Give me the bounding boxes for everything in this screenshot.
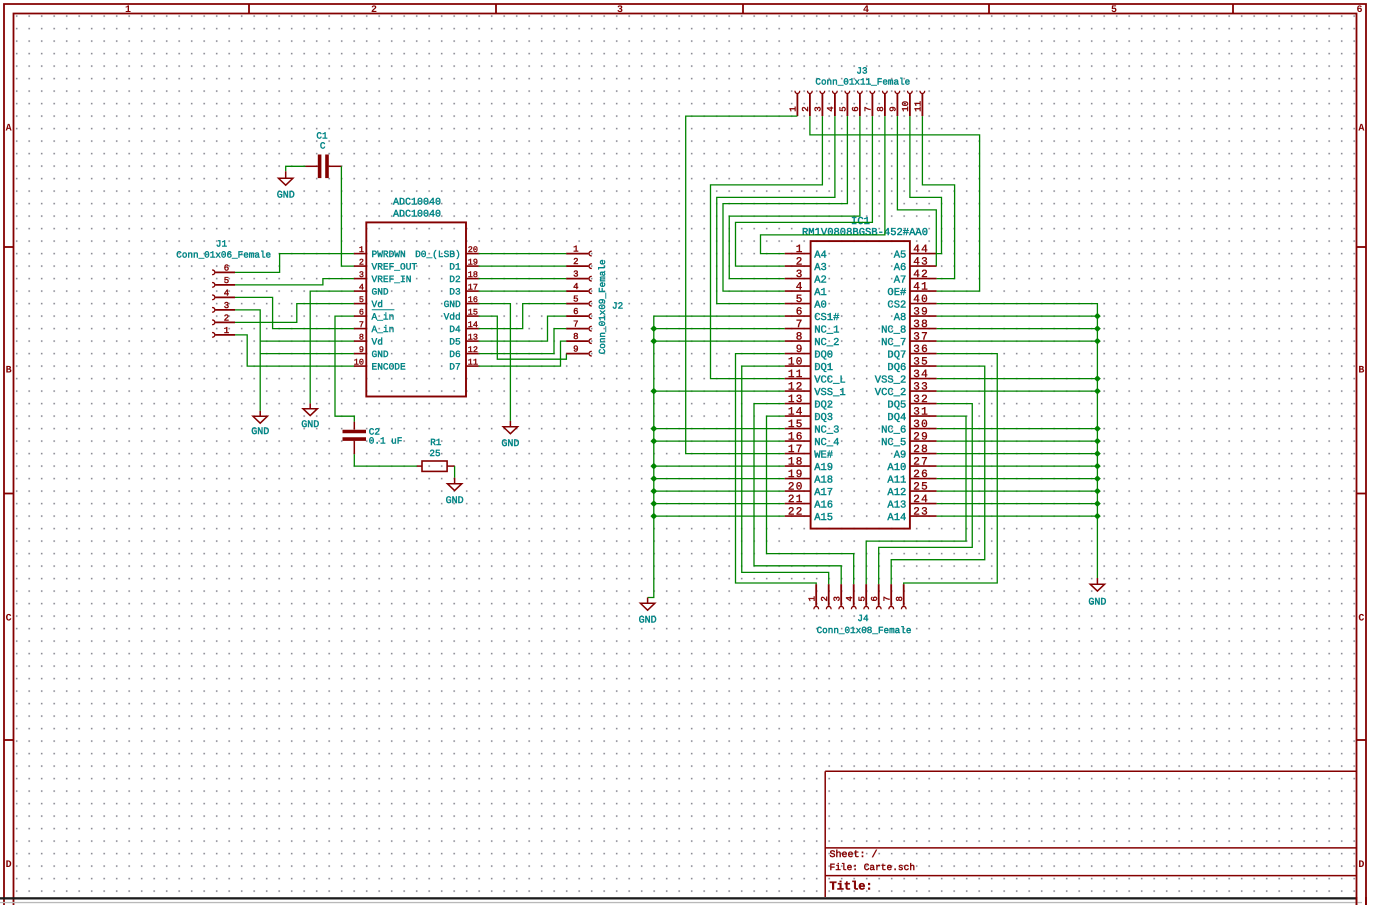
wire IC1 right row 18 to right ground bus bbox=[937, 465, 1098, 467]
wire J3 pin6 to IC1 pin3 A2 bbox=[729, 116, 860, 279]
wire ADC pin20 to J2 pin1 bbox=[479, 253, 567, 255]
IC1 pin 1 A4 bbox=[785, 244, 827, 261]
svg-text:4: 4 bbox=[863, 5, 869, 16]
svg-text:14: 14 bbox=[468, 320, 478, 330]
svg-text:7: 7 bbox=[882, 596, 892, 601]
svg-text:Vd: Vd bbox=[372, 337, 383, 348]
svg-text:15: 15 bbox=[788, 419, 804, 431]
wire IC1 right row 8 to right ground bus bbox=[937, 340, 1098, 342]
svg-text:17: 17 bbox=[468, 283, 478, 293]
svg-text:1: 1 bbox=[224, 326, 229, 336]
svg-text:6: 6 bbox=[359, 308, 364, 318]
svg-text:20: 20 bbox=[468, 245, 478, 255]
svg-text:C: C bbox=[320, 140, 326, 151]
wire IC1 pin 15 to left ground bus bbox=[654, 428, 785, 430]
ground symbol below ADC pin4 bbox=[309, 403, 311, 408]
svg-text:GND: GND bbox=[372, 349, 389, 360]
wire C2 to R1 bbox=[354, 454, 417, 466]
ADC pin 5 Vd bbox=[354, 295, 383, 310]
svg-text:18: 18 bbox=[788, 456, 804, 468]
junction on right ground bus row 20 bbox=[1094, 488, 1101, 495]
junction on right ground bus row 7 bbox=[1094, 325, 1101, 332]
svg-text:J3: J3 bbox=[856, 66, 867, 77]
svg-text:7: 7 bbox=[864, 106, 874, 111]
svg-text:DQ6: DQ6 bbox=[887, 362, 906, 374]
wire ADC pin14 to J2 pin5 bbox=[479, 304, 567, 329]
svg-text:CS1#: CS1# bbox=[814, 312, 839, 324]
svg-text:29: 29 bbox=[913, 431, 929, 443]
IC1 pin 10 DQ1 bbox=[785, 356, 833, 374]
wire ADC pin19 to J2 pin2 bbox=[479, 265, 567, 267]
svg-text:NC_7: NC_7 bbox=[881, 337, 906, 349]
junction on left ground bus row 8 bbox=[650, 338, 657, 345]
wire ADC pin4 to ground bbox=[310, 291, 354, 403]
ADC pin 19 D1 bbox=[449, 258, 478, 273]
svg-text:12: 12 bbox=[468, 345, 478, 355]
svg-text:GND: GND bbox=[251, 427, 269, 438]
svg-text:10: 10 bbox=[354, 358, 364, 368]
svg-text:A_in: A_in bbox=[372, 312, 395, 323]
ground symbol below ADC pin16 wire bbox=[509, 421, 511, 427]
svg-text:0.1 uF: 0.1 uF bbox=[369, 436, 402, 447]
wire J1 pin4 to ADC pin7 bbox=[235, 297, 354, 328]
ADC pin 7 A_in bbox=[354, 320, 394, 335]
wire IC1 pin 8 to left ground bus bbox=[654, 340, 785, 342]
svg-text:D6: D6 bbox=[449, 349, 461, 360]
wire J3 pin11 to IC1 pin42 A7 bbox=[922, 116, 954, 279]
wire IC1 right row 17 to right ground bus bbox=[937, 453, 1098, 455]
svg-text:11: 11 bbox=[788, 369, 804, 381]
junction on right ground bus row 12 bbox=[1094, 388, 1101, 395]
IC1 pin 40 CS2 bbox=[887, 294, 936, 312]
svg-text:13: 13 bbox=[468, 333, 478, 343]
junction on right ground bus row 18 bbox=[1094, 463, 1101, 470]
svg-text:39: 39 bbox=[913, 306, 929, 318]
svg-text:GND: GND bbox=[639, 616, 657, 627]
svg-text:3: 3 bbox=[359, 270, 364, 280]
svg-text:D0_(LSB): D0_(LSB) bbox=[415, 249, 461, 260]
ADC pin 10 ENCODE bbox=[354, 358, 406, 373]
svg-text:DQ1: DQ1 bbox=[814, 362, 833, 374]
svg-text:3: 3 bbox=[796, 269, 804, 281]
wire ADC pin11 to J2 pin8 bbox=[479, 341, 567, 366]
svg-text:OE#: OE# bbox=[887, 287, 906, 299]
svg-text:GND: GND bbox=[501, 439, 519, 450]
svg-text:6: 6 bbox=[1356, 5, 1362, 16]
svg-text:9: 9 bbox=[796, 344, 804, 356]
ADC pin 2 VREF_OUT bbox=[354, 258, 418, 273]
IC1 pin 39 A8 bbox=[894, 306, 937, 324]
svg-text:GND: GND bbox=[277, 190, 295, 201]
wire J3 pin2 to IC1 pin41 OE# bbox=[810, 116, 980, 291]
ADC pin 16 GND bbox=[444, 295, 479, 310]
svg-text:GND: GND bbox=[301, 420, 319, 431]
svg-text:16: 16 bbox=[468, 295, 478, 305]
svg-text:40: 40 bbox=[913, 294, 929, 306]
svg-text:ADC10040: ADC10040 bbox=[393, 198, 441, 209]
junction on left ground bus row 19 bbox=[650, 475, 657, 482]
svg-text:7: 7 bbox=[359, 320, 364, 330]
svg-text:A18: A18 bbox=[814, 474, 833, 486]
svg-text:NC_5: NC_5 bbox=[881, 437, 906, 449]
junction on left ground bus row 21 bbox=[650, 500, 657, 507]
wire IC1 right row 6 to right ground bus bbox=[937, 315, 1098, 317]
wire ADC pin1 to J1 pin6 bbox=[235, 254, 354, 273]
svg-text:3: 3 bbox=[617, 5, 623, 16]
svg-text:10: 10 bbox=[788, 356, 804, 368]
svg-text:A6: A6 bbox=[894, 262, 907, 274]
capacitor C1 bbox=[306, 155, 342, 179]
wire IC1 DQ6 to J4 pin7 bbox=[891, 366, 985, 584]
svg-text:A0: A0 bbox=[814, 299, 827, 311]
svg-text:3: 3 bbox=[573, 270, 578, 280]
ADC pin 4 GND bbox=[354, 283, 389, 298]
svg-text:1: 1 bbox=[807, 596, 817, 601]
IC1 pin 43 A6 bbox=[894, 256, 937, 274]
IC1 pin 16 NC_4 bbox=[785, 431, 840, 449]
svg-text:6: 6 bbox=[224, 263, 229, 273]
svg-text:36: 36 bbox=[913, 344, 929, 356]
wire IC1 DQ0 to J4 pin1 bbox=[736, 354, 817, 585]
wire J3 pin3 to IC1 pin11 VCC_L bbox=[711, 116, 823, 379]
svg-text:38: 38 bbox=[913, 319, 929, 331]
wire IC1 pin 16 to left ground bus bbox=[654, 440, 785, 442]
svg-text:A7: A7 bbox=[894, 274, 907, 286]
svg-text:GND: GND bbox=[372, 287, 389, 298]
wire IC1 right row 15 to right ground bus bbox=[937, 428, 1098, 430]
svg-text:C: C bbox=[1358, 614, 1364, 625]
IC1 pin 3 A2 bbox=[785, 269, 827, 287]
IC1 pin 6 CS1# bbox=[785, 306, 840, 324]
svg-text:2: 2 bbox=[801, 106, 811, 111]
svg-text:16: 16 bbox=[788, 431, 804, 443]
svg-text:VSS_2: VSS_2 bbox=[875, 374, 907, 386]
svg-text:7: 7 bbox=[796, 319, 804, 331]
IC1 pin 8 NC_2 bbox=[785, 331, 840, 349]
svg-text:5: 5 bbox=[573, 295, 578, 305]
junction on right ground bus row 11 bbox=[1094, 375, 1101, 382]
svg-text:11: 11 bbox=[914, 101, 924, 112]
svg-text:4: 4 bbox=[359, 283, 364, 293]
IC1 pin 37 NC_7 bbox=[881, 331, 937, 349]
wire ADC pin13 to J2 pin6 bbox=[479, 316, 567, 341]
svg-text:25: 25 bbox=[429, 448, 440, 459]
wire J3 pin5 to IC1 pin4 A1 bbox=[723, 116, 847, 291]
IC1 pin 26 A11 bbox=[887, 469, 936, 487]
svg-text:Conn_01x06_Female: Conn_01x06_Female bbox=[176, 250, 271, 261]
svg-text:1: 1 bbox=[573, 245, 578, 255]
connector J3 bbox=[795, 91, 925, 116]
IC1 pin 34 VSS_2 bbox=[875, 369, 937, 387]
wire IC1 pin 20 to left ground bus bbox=[654, 490, 785, 492]
wire IC1 DQ2 to J4 pin3 bbox=[754, 404, 841, 585]
svg-text:1: 1 bbox=[125, 5, 131, 16]
wire IC1 right row 12 to right ground bus bbox=[937, 390, 1098, 392]
IC1 pin 15 NC_3 bbox=[785, 419, 840, 437]
svg-text:NC_6: NC_6 bbox=[881, 424, 906, 436]
svg-text:5: 5 bbox=[839, 106, 849, 111]
wire IC1 pin 19 to left ground bus bbox=[654, 478, 785, 480]
wire IC1 right row 20 to right ground bus bbox=[937, 490, 1098, 492]
svg-text:6: 6 bbox=[870, 596, 880, 601]
junction on left ground bus row 7 bbox=[650, 325, 657, 332]
IC1 pin 2 A3 bbox=[785, 256, 827, 274]
IC IC1 body bbox=[811, 241, 910, 528]
svg-text:8: 8 bbox=[796, 331, 804, 343]
svg-text:10: 10 bbox=[901, 101, 911, 112]
svg-text:4: 4 bbox=[573, 282, 578, 292]
wire C1 left to GND bbox=[286, 166, 306, 171]
svg-text:D5: D5 bbox=[449, 337, 461, 348]
ADC pin 20 D0_(LSB) bbox=[415, 245, 479, 260]
wire IC1 pin 12 to left ground bus bbox=[654, 390, 785, 392]
svg-text:NC_1: NC_1 bbox=[814, 324, 839, 336]
svg-text:A11: A11 bbox=[887, 474, 906, 486]
svg-text:33: 33 bbox=[913, 381, 929, 393]
svg-text:32: 32 bbox=[913, 394, 929, 406]
junction on right ground bus row 21 bbox=[1094, 500, 1101, 507]
svg-text:34: 34 bbox=[913, 369, 929, 381]
frame column numbers bbox=[125, 5, 1363, 16]
junction on right ground bus row 19 bbox=[1094, 475, 1101, 482]
IC1 pin 35 DQ6 bbox=[887, 356, 936, 374]
svg-text:35: 35 bbox=[913, 356, 929, 368]
svg-text:DQ0: DQ0 bbox=[814, 349, 833, 361]
svg-text:7: 7 bbox=[573, 320, 578, 330]
junction on right ground bus row 17 bbox=[1094, 450, 1101, 457]
svg-text:11: 11 bbox=[468, 358, 478, 368]
svg-text:ENCODE: ENCODE bbox=[372, 362, 407, 373]
ADC pin 6 A_in bbox=[354, 308, 395, 323]
junction on right ground bus row 6 bbox=[1094, 313, 1101, 320]
svg-text:5: 5 bbox=[796, 294, 804, 306]
svg-text:20: 20 bbox=[788, 481, 804, 493]
IC1 pin 21 A16 bbox=[785, 494, 833, 512]
wire ADC pin17 to J2 pin4 bbox=[479, 290, 567, 292]
svg-text:J2: J2 bbox=[612, 301, 623, 312]
svg-text:4: 4 bbox=[826, 106, 836, 111]
svg-text:24: 24 bbox=[913, 494, 929, 506]
svg-text:VREF_IN: VREF_IN bbox=[372, 274, 412, 285]
svg-text:A10: A10 bbox=[887, 462, 906, 474]
wire J3 pin4 to IC1 pin5 A0 bbox=[717, 116, 835, 304]
svg-text:2: 2 bbox=[371, 5, 377, 16]
svg-text:12: 12 bbox=[788, 381, 804, 393]
svg-text:3: 3 bbox=[224, 301, 229, 311]
svg-text:4: 4 bbox=[796, 281, 804, 293]
svg-text:6: 6 bbox=[573, 307, 578, 317]
capacitor C2 bbox=[343, 422, 367, 455]
svg-text:2: 2 bbox=[820, 596, 830, 601]
svg-text:30: 30 bbox=[913, 419, 929, 431]
svg-text:25: 25 bbox=[913, 481, 929, 493]
junction on right ground bus row 8 bbox=[1094, 338, 1101, 345]
svg-text:A3: A3 bbox=[814, 262, 827, 274]
svg-text:31: 31 bbox=[913, 406, 929, 418]
IC1 pin 31 DQ4 bbox=[887, 406, 936, 424]
IC1 pin 44 A5 bbox=[894, 244, 937, 261]
svg-text:Conn_01x08_Female: Conn_01x08_Female bbox=[817, 625, 912, 636]
svg-text:A5: A5 bbox=[894, 249, 907, 261]
svg-text:RM1V0808BGSB-452#AA0: RM1V0808BGSB-452#AA0 bbox=[802, 227, 928, 239]
wire J3 pin10 to IC1 pin44 A5 bbox=[910, 116, 942, 254]
wire ADC pin15 to J2 pin9 bbox=[479, 316, 567, 359]
ADC pin 13 D5 bbox=[449, 333, 478, 348]
ground symbol at C1 bbox=[285, 171, 287, 178]
svg-text:15: 15 bbox=[468, 308, 478, 318]
svg-text:Sheet: /: Sheet: / bbox=[830, 849, 878, 861]
ADC pin 1 PWRDWN bbox=[354, 245, 406, 260]
svg-text:GND: GND bbox=[1088, 598, 1106, 609]
IC1 pin 36 DQ7 bbox=[887, 344, 936, 362]
svg-text:1: 1 bbox=[796, 244, 804, 256]
IC1 pin 11 VCC_L bbox=[785, 369, 846, 387]
IC1 pin 4 A1 bbox=[785, 281, 827, 299]
svg-text:2: 2 bbox=[224, 313, 229, 323]
IC1 pin 41 OE# bbox=[887, 281, 936, 299]
junction on right ground bus row 22 bbox=[1094, 513, 1101, 520]
IC1 pin 29 NC_5 bbox=[881, 431, 937, 449]
connector J4 bbox=[814, 584, 906, 609]
connector J1 bbox=[212, 270, 235, 337]
svg-text:DQ4: DQ4 bbox=[887, 412, 906, 424]
svg-text:28: 28 bbox=[913, 444, 929, 456]
IC1 pin 30 NC_6 bbox=[881, 419, 937, 437]
svg-text:NC_3: NC_3 bbox=[814, 424, 839, 436]
svg-text:NC_8: NC_8 bbox=[881, 324, 906, 336]
wire R1 to ground bbox=[454, 466, 456, 478]
connector J2 bbox=[566, 251, 592, 356]
svg-text:23: 23 bbox=[913, 506, 929, 518]
svg-text:A1: A1 bbox=[814, 287, 827, 299]
IC1 pin 23 A14 bbox=[887, 506, 936, 524]
wire IC1 DQ4 to J4 pin5 bbox=[866, 416, 966, 584]
junction on left ground bus row 12 bbox=[650, 388, 657, 395]
wire J3 pin7 to IC1 pin2 A3 bbox=[736, 116, 873, 266]
svg-text:ADC10040: ADC10040 bbox=[393, 209, 441, 220]
wire ADC pin16 to ground bbox=[479, 304, 511, 421]
wire IC1 right row 16 to right ground bus bbox=[937, 440, 1098, 442]
svg-text:WE#: WE# bbox=[814, 449, 833, 461]
svg-text:VCC_L: VCC_L bbox=[814, 374, 846, 386]
svg-text:NC_4: NC_4 bbox=[814, 437, 839, 449]
svg-text:A_in: A_in bbox=[372, 324, 395, 335]
svg-text:17: 17 bbox=[788, 444, 804, 456]
svg-text:A: A bbox=[6, 124, 12, 135]
junction on left ground bus row 18 bbox=[650, 463, 657, 470]
svg-text:9: 9 bbox=[573, 345, 578, 355]
junction on left ground bus row 15 bbox=[650, 425, 657, 432]
svg-text:PWRDWN: PWRDWN bbox=[372, 249, 406, 260]
svg-text:Title:: Title: bbox=[830, 880, 873, 894]
junction on right ground bus row 15 bbox=[1094, 425, 1101, 432]
IC1 pin 12 VSS_1 bbox=[785, 381, 846, 399]
svg-text:2: 2 bbox=[359, 258, 364, 268]
junction on right ground bus row 16 bbox=[1094, 438, 1101, 445]
svg-text:5: 5 bbox=[1111, 5, 1117, 16]
IC1 pin 25 A12 bbox=[887, 481, 936, 499]
IC1 pin 5 A0 bbox=[785, 294, 827, 312]
IC U1 ADC10040 body bbox=[366, 222, 466, 396]
wire IC1 right row 19 to right ground bus bbox=[937, 478, 1098, 480]
ground symbol below R1 bbox=[454, 478, 456, 484]
wire IC1 right row 22 to right ground bus bbox=[937, 515, 1098, 517]
svg-text:27: 27 bbox=[913, 456, 929, 468]
svg-text:21: 21 bbox=[788, 494, 804, 506]
ADC pin 3 VREF_IN bbox=[354, 270, 412, 285]
wire IC1 DQ1 to J4 pin2 bbox=[742, 366, 829, 584]
wire IC1 right row 7 to right ground bus bbox=[937, 328, 1098, 330]
svg-text:A9: A9 bbox=[894, 449, 907, 461]
svg-text:6: 6 bbox=[851, 106, 861, 111]
svg-text:13: 13 bbox=[788, 394, 804, 406]
svg-text:44: 44 bbox=[913, 244, 929, 256]
svg-text:DQ5: DQ5 bbox=[887, 399, 906, 411]
ADC pin 9 GND bbox=[354, 345, 389, 360]
wire ADC pin3 to J1 pin5 bbox=[235, 279, 354, 285]
svg-text:3: 3 bbox=[814, 106, 824, 111]
ADC pin 14 D4 bbox=[449, 320, 478, 335]
wire J3 pin9 to IC1 pin43 A6 bbox=[897, 116, 936, 266]
IC1 pin 18 A19 bbox=[785, 456, 833, 474]
svg-text:CS2: CS2 bbox=[887, 299, 906, 311]
svg-text:R1: R1 bbox=[430, 437, 442, 448]
wire IC1 pin 22 to left ground bus bbox=[654, 515, 785, 517]
ADC pin 17 D3 bbox=[449, 283, 478, 298]
svg-text:A4: A4 bbox=[814, 249, 827, 261]
svg-text:Vd: Vd bbox=[372, 299, 383, 310]
ADC pin 8 Vd bbox=[354, 333, 383, 348]
svg-text:1: 1 bbox=[789, 106, 799, 111]
svg-text:B: B bbox=[1358, 366, 1364, 377]
svg-text:Conn_01x11_Female: Conn_01x11_Female bbox=[815, 77, 910, 88]
svg-text:A16: A16 bbox=[814, 499, 833, 511]
IC1 pin 24 A13 bbox=[887, 494, 936, 512]
svg-text:26: 26 bbox=[913, 469, 929, 481]
svg-text:File: Carte.sch: File: Carte.sch bbox=[830, 862, 916, 873]
svg-text:A13: A13 bbox=[887, 499, 906, 511]
IC1 pin 32 DQ5 bbox=[887, 394, 936, 412]
ground symbol left bus bbox=[647, 598, 649, 604]
IC1 pin 14 DQ3 bbox=[785, 406, 833, 424]
svg-text:DQ3: DQ3 bbox=[814, 412, 833, 424]
svg-text:A15: A15 bbox=[814, 512, 833, 524]
svg-text:A8: A8 bbox=[894, 312, 907, 324]
svg-text:37: 37 bbox=[913, 331, 929, 343]
wire C1 right to ADC pin 2 bbox=[341, 166, 354, 266]
svg-text:8: 8 bbox=[895, 596, 905, 601]
IC1 pin 13 DQ2 bbox=[785, 394, 833, 412]
svg-text:4: 4 bbox=[224, 288, 229, 298]
IC1 pin 38 NC_8 bbox=[881, 319, 937, 337]
wire J1 pin3 to ADC pin8 and ground bbox=[235, 310, 260, 411]
svg-text:3: 3 bbox=[832, 596, 842, 601]
svg-text:5: 5 bbox=[857, 596, 867, 601]
IC1 pin 42 A7 bbox=[894, 269, 937, 287]
svg-text:2: 2 bbox=[796, 256, 804, 268]
svg-text:22: 22 bbox=[788, 506, 804, 518]
wire ADC pin6 to C2 bbox=[335, 316, 354, 422]
svg-text:D: D bbox=[6, 860, 12, 871]
svg-text:NC_2: NC_2 bbox=[814, 337, 839, 349]
resistor R1 bbox=[417, 461, 455, 471]
wire J1 pin2 to ADC pin5 bbox=[235, 304, 354, 323]
IC1 pin 27 A10 bbox=[887, 456, 936, 474]
wire J3 pin8 to IC1 pin1 A4 bbox=[761, 116, 885, 254]
svg-text:VREF_OUT: VREF_OUT bbox=[372, 262, 418, 273]
svg-text:GND: GND bbox=[446, 496, 464, 507]
svg-text:Conn_01x09_Female: Conn_01x09_Female bbox=[597, 259, 608, 354]
